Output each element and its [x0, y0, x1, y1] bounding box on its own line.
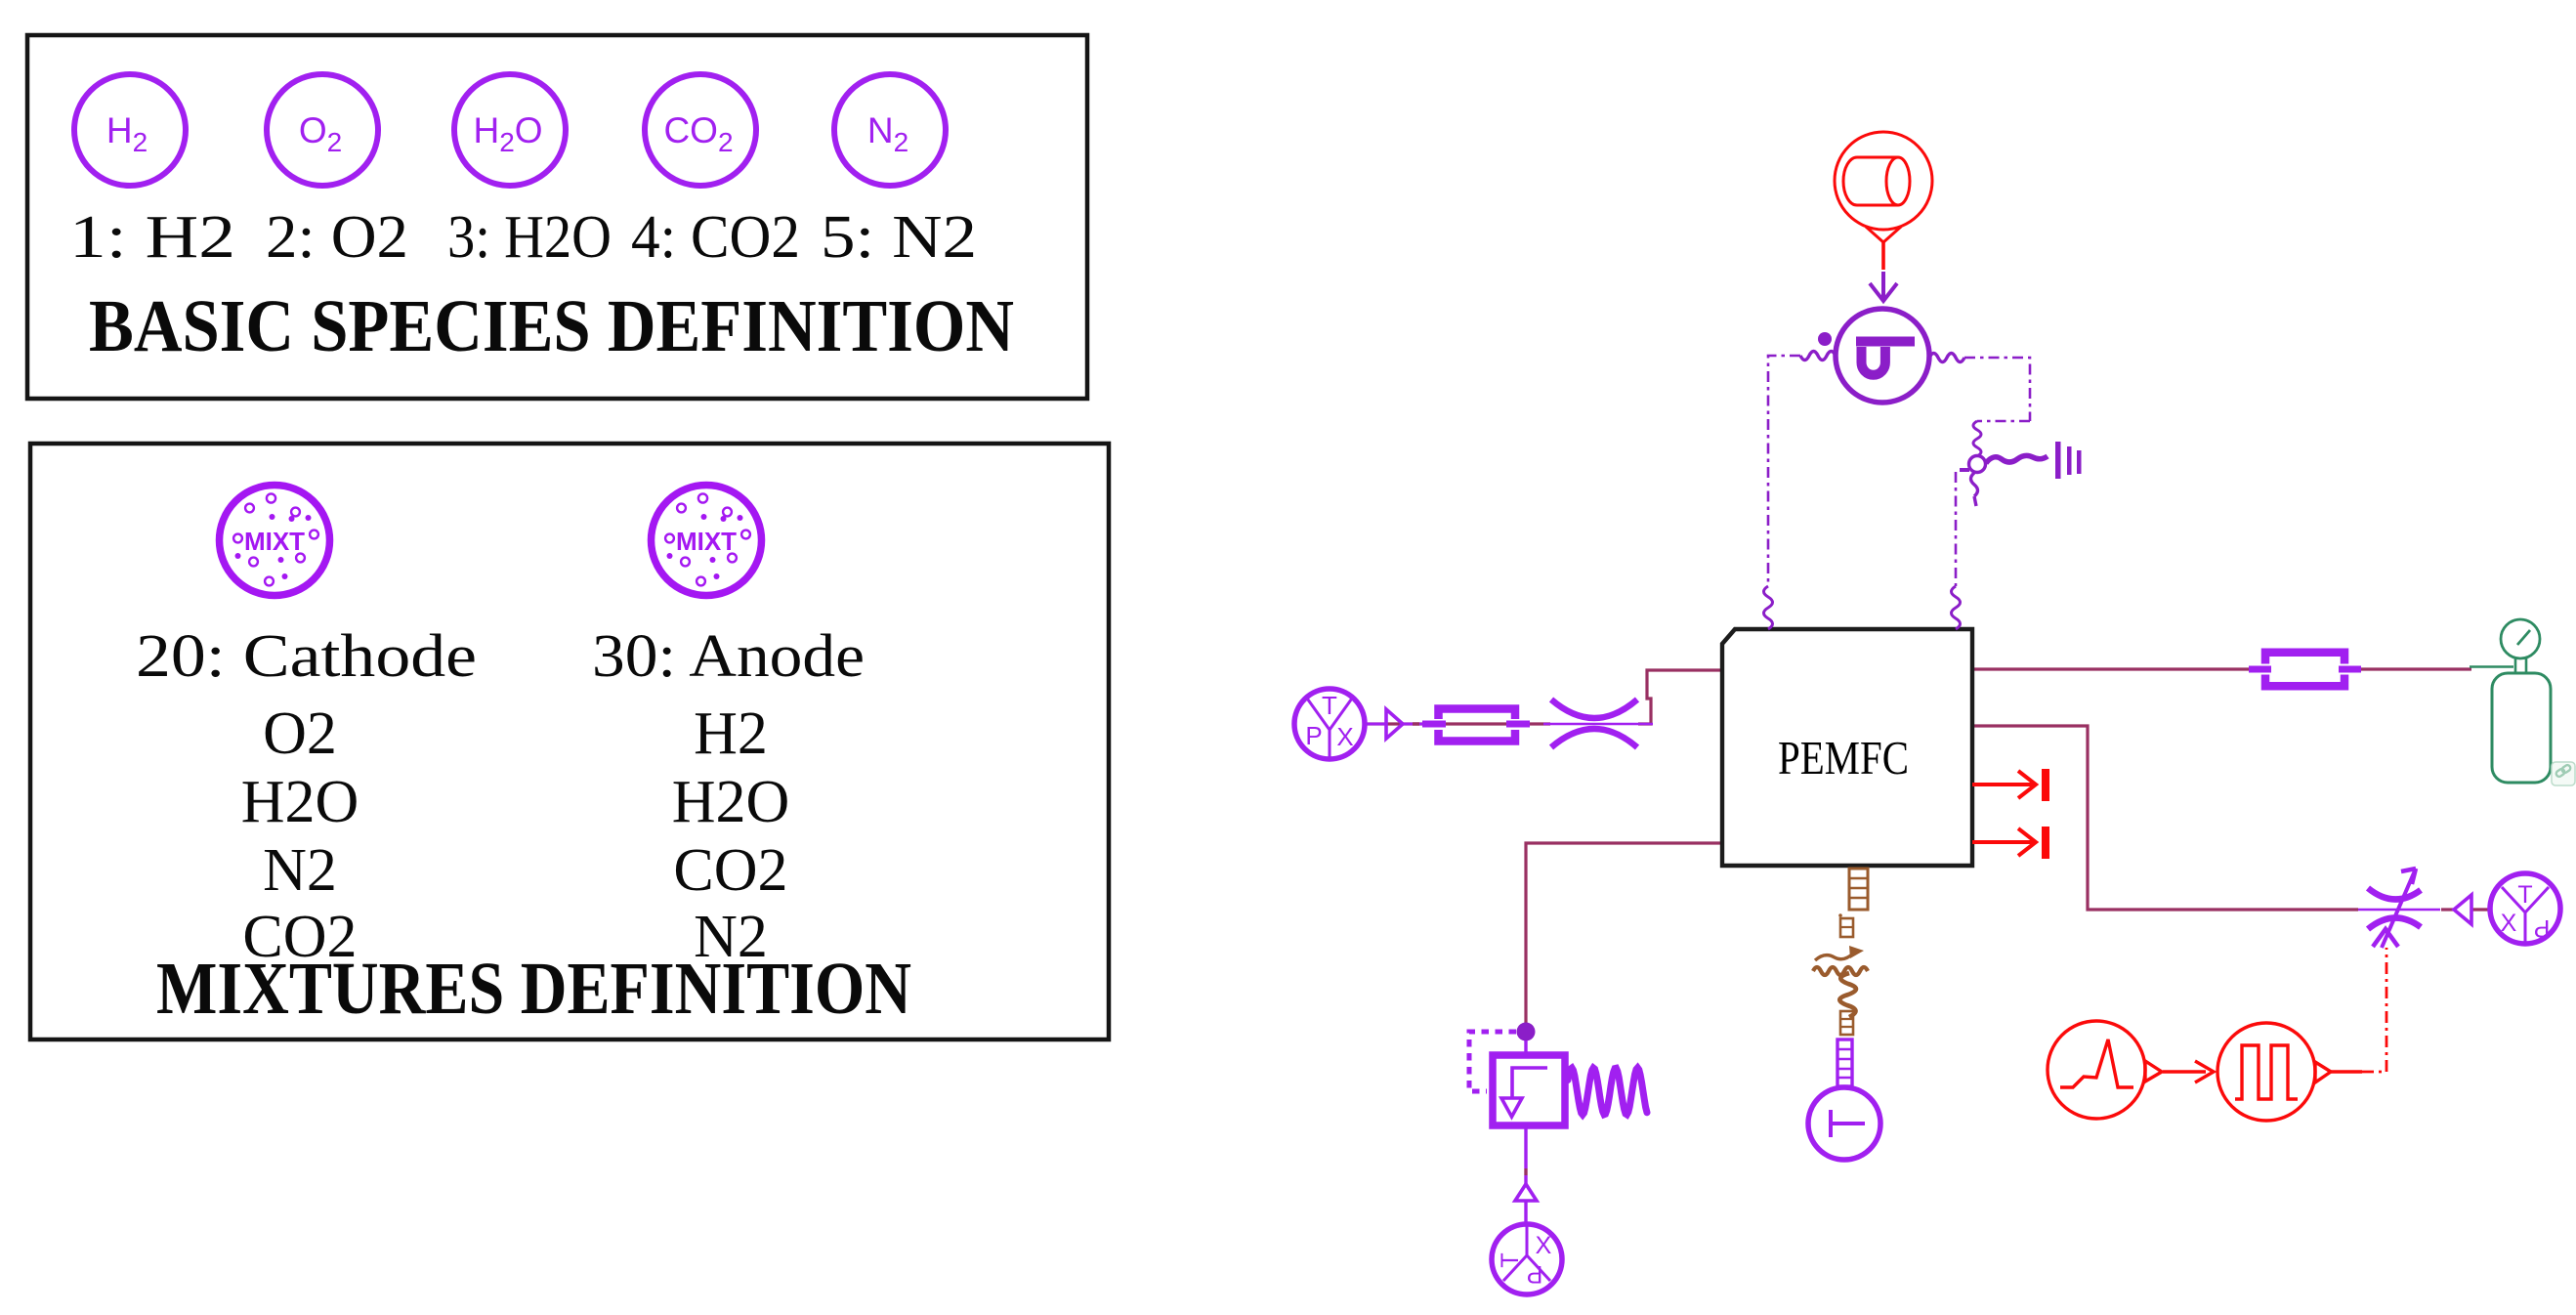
svg-text:3: H2O: 3: H2O: [447, 204, 612, 271]
svg-text:O2: O2: [299, 110, 342, 157]
svg-text:1: H2: 1: H2: [69, 204, 235, 271]
svg-text:20: Cathode: 20: Cathode: [136, 623, 477, 690]
svg-text:T: T: [1322, 691, 1337, 720]
svg-text:N2: N2: [867, 110, 908, 157]
svg-text:H2O: H2O: [672, 769, 790, 835]
svg-text:X: X: [2501, 910, 2517, 937]
svg-text:CO2: CO2: [673, 837, 787, 904]
svg-text:CO2: CO2: [663, 110, 733, 157]
svg-text:MIXT: MIXT: [676, 527, 737, 556]
svg-text:H2: H2: [694, 700, 768, 767]
svg-text:2: O2: 2: O2: [266, 204, 408, 271]
svg-text:4: CO2: 4: CO2: [631, 204, 800, 271]
svg-text:5: N2: 5: N2: [821, 204, 977, 271]
svg-text:MIXTURES DEFINITION: MIXTURES DEFINITION: [156, 948, 911, 1030]
svg-text:X: X: [1536, 1232, 1552, 1259]
svg-text:X: X: [1336, 722, 1353, 751]
svg-text:H2O: H2O: [241, 769, 359, 835]
svg-text:MIXT: MIXT: [244, 527, 305, 556]
svg-text:BASIC SPECIES DEFINITION: BASIC SPECIES DEFINITION: [89, 285, 1014, 367]
svg-text:PEMFC: PEMFC: [1778, 731, 1909, 785]
svg-text:N2: N2: [263, 837, 337, 904]
svg-text:T: T: [2517, 881, 2532, 909]
svg-text:T: T: [1497, 1252, 1524, 1267]
svg-text:P: P: [2534, 914, 2551, 942]
svg-text:H2: H2: [106, 110, 148, 157]
svg-text:P: P: [1305, 721, 1322, 750]
svg-text:O2: O2: [263, 700, 337, 767]
svg-text:30: Anode: 30: Anode: [592, 623, 865, 690]
svg-text:P: P: [1527, 1260, 1543, 1288]
svg-text:H2O: H2O: [473, 110, 542, 157]
